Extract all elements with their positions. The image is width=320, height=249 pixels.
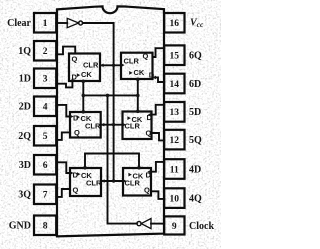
wire pin11 to FF4 D: [151, 162, 164, 172]
svg-text:D: D: [72, 73, 78, 82]
wire pin3 to FF1 D: [57, 81, 72, 87]
junction CK FF3: [83, 166, 87, 170]
wire FF4 Q to pin10: [151, 191, 164, 199]
svg-text:16: 16: [170, 19, 180, 29]
svg-text:4Q: 4Q: [189, 193, 202, 204]
junction CK FF2: [82, 110, 86, 114]
svg-text:13: 13: [170, 108, 180, 118]
svg-text:Q: Q: [72, 55, 78, 64]
wire FF5 Q to pin12: [152, 133, 165, 140]
pin 12 box: [164, 130, 184, 150]
junction CK FF6: [136, 78, 140, 82]
svg-text:5D: 5D: [189, 107, 201, 118]
wire FF6 D to pin14: [153, 77, 165, 82]
pin 16 box: [164, 13, 184, 33]
svg-text:5: 5: [43, 132, 48, 142]
svg-text:15: 15: [170, 52, 180, 62]
CK wedge FF6: [129, 71, 132, 75]
arrowhead D FF1: [71, 78, 75, 81]
arrowhead CLR FF3: [101, 179, 104, 183]
wire pin4 to FF2 D: [57, 105, 70, 117]
svg-text:8: 8: [43, 222, 48, 232]
wire FF6 Q to pin15: [153, 48, 165, 57]
svg-text:CLR: CLR: [86, 179, 102, 188]
CK wedge FF3: [77, 172, 80, 176]
svg-text:Clear: Clear: [7, 18, 31, 29]
arrowhead D FF4: [147, 170, 150, 174]
svg-text:3Q: 3Q: [18, 190, 31, 201]
svg-text:CK: CK: [134, 68, 145, 77]
svg-text:CLR: CLR: [124, 57, 140, 66]
pin 11 box: [164, 159, 184, 179]
junction clear row3: [112, 179, 115, 182]
svg-text:D: D: [147, 113, 153, 122]
flip-flop FF5: [123, 112, 152, 140]
flip-flop FF1: [69, 54, 100, 82]
svg-text:6D: 6D: [189, 79, 201, 90]
junction CK FF5: [136, 110, 140, 114]
pin 1 box: [34, 13, 56, 33]
wire pin1 to U1: [56, 22, 67, 24]
wire pin13 to FF5 D: [152, 105, 165, 115]
flip-flop FF2: [70, 112, 101, 138]
inverter U1 clear: [67, 18, 79, 27]
svg-text:Q: Q: [143, 52, 149, 61]
wire clear branch row3: [101, 180, 123, 182]
flip-flop FF3: [70, 168, 101, 196]
arrowhead CLR FF6: [121, 63, 124, 67]
pin 13 box: [164, 102, 184, 122]
pin 6 box: [34, 155, 56, 175]
wire pin5 to FF2 Q: [57, 132, 70, 140]
pin 2 box: [34, 41, 56, 61]
inverter U2 clock: [141, 219, 151, 229]
svg-text:1D: 1D: [19, 74, 31, 85]
wire pin6 to FF3 D: [57, 162, 70, 173]
arrowhead D FF3: [70, 171, 73, 175]
wire clock rail row1-2: [83, 94, 138, 96]
svg-text:1Q: 1Q: [18, 46, 31, 57]
svg-text:GND: GND: [9, 221, 31, 232]
svg-text:Vcc: Vcc: [190, 18, 204, 30]
wire pin2 to FF1 Q: [56, 47, 75, 55]
flip-flop FF6: [121, 53, 153, 79]
svg-text:14: 14: [170, 80, 180, 90]
pin 4 box: [34, 97, 56, 117]
flip-flop FF4: [123, 168, 151, 196]
junction rail1 right: [136, 94, 140, 98]
svg-text:Q: Q: [73, 186, 79, 195]
svg-text:3: 3: [43, 75, 48, 85]
svg-text:Clock: Clock: [189, 221, 214, 232]
wire clock rail main: [108, 95, 137, 223]
arrowhead CLR FF1: [100, 64, 103, 68]
junction CK FF4: [137, 166, 141, 170]
svg-text:1: 1: [43, 19, 48, 29]
svg-text:3D: 3D: [19, 160, 31, 171]
pin 3 box: [34, 69, 56, 89]
arrowhead D FF2: [70, 115, 73, 119]
arrowhead D FF5: [148, 113, 151, 117]
IC body outline with notch: [57, 6, 164, 236]
arrowhead CLR FF4: [123, 179, 126, 183]
CK wedge FF1: [77, 73, 80, 77]
svg-text:Q: Q: [74, 128, 80, 137]
arrowhead CLR FF2: [123, 123, 126, 127]
CK wedge FF2: [77, 115, 80, 119]
wire CK stub left rows1-2: [82, 81, 84, 112]
svg-text:7: 7: [43, 191, 48, 201]
wire clock rail row3: [85, 154, 139, 169]
svg-text:10: 10: [170, 195, 180, 205]
junction rail1 left: [82, 94, 86, 98]
svg-text:CLR: CLR: [83, 61, 99, 70]
wire clear rail: [83, 23, 114, 181]
svg-text:9: 9: [172, 222, 177, 232]
pin 5 box: [34, 126, 56, 146]
svg-text:D: D: [146, 171, 152, 180]
svg-text:4D: 4D: [189, 164, 201, 175]
pin 15 box: [164, 45, 184, 65]
wire CK stub right rows1-2: [137, 79, 139, 112]
junction CK FF1: [82, 80, 86, 84]
svg-text:D: D: [149, 71, 155, 80]
pin 14 box: [164, 74, 184, 94]
svg-text:CLR: CLR: [85, 122, 101, 131]
wire clear branch row2: [101, 124, 123, 126]
svg-text:Q: Q: [146, 129, 152, 138]
svg-text:6: 6: [43, 161, 48, 171]
pin 8 box: [34, 216, 56, 236]
wire clear branch row1: [100, 64, 121, 66]
pin 7 box: [34, 185, 56, 205]
svg-text:2: 2: [43, 47, 48, 57]
wire pin9 to U2: [151, 223, 164, 225]
arrowhead CLR FF2 left: [101, 123, 104, 127]
svg-text:CLR: CLR: [125, 122, 141, 131]
svg-text:2Q: 2Q: [18, 131, 31, 142]
svg-text:CK: CK: [81, 70, 92, 79]
svg-text:12: 12: [170, 136, 180, 146]
pin 9 box: [164, 216, 184, 234]
svg-text:4: 4: [43, 103, 48, 113]
svg-text:Q: Q: [144, 186, 150, 195]
junction clear row2: [112, 123, 115, 126]
svg-text:11: 11: [170, 165, 179, 175]
junction clock T: [106, 94, 110, 98]
wire pin7 to FF3 Q: [57, 189, 70, 197]
svg-text:CLR: CLR: [125, 179, 141, 188]
arrowhead D FF6: [153, 76, 156, 80]
svg-text:2D: 2D: [19, 102, 31, 113]
junction clear row1: [112, 64, 115, 67]
CK wedge FF4: [128, 173, 131, 177]
pin 10 box: [164, 188, 184, 208]
svg-text:6Q: 6Q: [189, 51, 202, 62]
svg-text:5Q: 5Q: [189, 135, 202, 146]
CK wedge FF5: [127, 116, 130, 120]
